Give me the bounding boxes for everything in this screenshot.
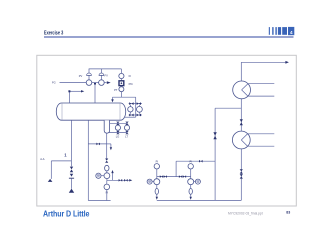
svg-text:4: 4 <box>290 30 293 35</box>
discharge gate valve <box>124 179 128 182</box>
valve above E2 <box>240 119 243 125</box>
arrow overhead <box>285 61 289 64</box>
svg-text:MYC92002-03_final.ppt: MYC92002-03_final.ppt <box>228 212 263 216</box>
wire boot drain <box>106 133 108 158</box>
arrow vent <box>107 81 111 84</box>
slops branch wire <box>51 161 71 179</box>
valve on cross link <box>96 143 100 146</box>
svg-text:Exercise 3: Exercise 3 <box>44 30 64 36</box>
wire <box>120 92 122 98</box>
pump P1 <box>104 173 110 179</box>
wire to grade <box>71 178 73 189</box>
svg-text:FG: FG <box>52 81 56 85</box>
svg-text:A-A: A-A <box>40 157 45 161</box>
wire <box>120 85 122 88</box>
wire <box>156 169 158 179</box>
wire tap header <box>113 96 136 98</box>
fan cooler E2 <box>232 131 250 149</box>
level bridle top rail <box>110 122 128 124</box>
valves below E2 <box>240 169 243 178</box>
wire between valves <box>92 82 99 84</box>
drain stub arrow <box>107 144 112 150</box>
valve on riser header <box>199 160 203 163</box>
svg-text:PI: PI <box>156 159 159 163</box>
drain arrowhead <box>70 174 73 177</box>
motor M1 <box>96 173 104 178</box>
wire vessel outlet column <box>87 120 89 200</box>
svg-text:FV: FV <box>105 74 109 78</box>
PSV bottom valves <box>129 114 141 117</box>
wire pump1 drain <box>106 190 108 201</box>
E1 stubs <box>248 84 274 96</box>
PSV top bar <box>129 103 142 105</box>
wire pumps header <box>157 176 191 178</box>
svg-text:PIC: PIC <box>129 82 133 86</box>
drain bar <box>69 177 74 179</box>
wire bypass top link <box>215 107 241 109</box>
wire bypass riser <box>214 108 216 200</box>
casing P2 <box>155 185 158 195</box>
wire pump discharge <box>107 179 129 181</box>
motor M2 <box>147 179 154 184</box>
wire drain column <box>70 120 72 166</box>
wire <box>190 169 192 179</box>
svg-text:LT: LT <box>125 134 128 138</box>
control valve PV2 <box>99 73 105 85</box>
arrow into vessel <box>111 97 114 102</box>
header valves left <box>160 175 167 178</box>
gauge PI2 <box>154 164 159 169</box>
instrument FI <box>119 73 124 78</box>
drain triangle <box>69 189 74 193</box>
fan cooler E1 <box>233 81 251 99</box>
svg-text:PI: PI <box>189 159 192 163</box>
gauge PI3 <box>188 164 193 169</box>
drain valve <box>70 167 73 173</box>
strainer <box>105 165 109 171</box>
svg-text:PV: PV <box>79 74 83 78</box>
vent riser arrow <box>111 170 113 180</box>
casing P3 <box>189 185 192 195</box>
PSV top valves <box>129 102 141 105</box>
header valves right <box>179 175 186 178</box>
control valve PV1 <box>86 73 92 85</box>
PSV assembly vertical <box>135 97 137 115</box>
wire <box>106 171 108 173</box>
PSV left circle <box>128 107 133 112</box>
diagram frame <box>37 55 297 206</box>
svg-text:LG: LG <box>116 134 119 138</box>
controller PIC <box>119 81 124 86</box>
transmitter LT <box>124 125 129 130</box>
svg-text:83: 83 <box>286 211 290 215</box>
PSV bottom return <box>125 115 136 117</box>
arrow P3 down <box>190 194 192 200</box>
PSV bottom bar <box>129 114 142 116</box>
vessel seam left <box>61 103 63 120</box>
vessel seam right <box>119 103 121 120</box>
wire bottom header <box>157 199 242 201</box>
E2 stubs <box>248 134 275 146</box>
wire riser <box>176 161 215 176</box>
arrow P2 down <box>156 194 158 200</box>
PSV stubs <box>130 105 139 114</box>
discharge arrow <box>129 179 132 181</box>
svg-text:Arthur D Little: Arthur D Little <box>43 209 90 219</box>
discharge check valve <box>119 179 123 182</box>
wire bottom left header <box>88 200 110 202</box>
slops triangle <box>48 179 53 182</box>
motor M3 <box>194 179 201 184</box>
vessel stub arrow <box>68 90 84 103</box>
node tee <box>94 83 96 85</box>
wire overhead outlet <box>241 61 285 63</box>
gauge LG <box>115 125 120 130</box>
bridle valves <box>116 122 129 135</box>
wire tee to vessel <box>94 83 96 103</box>
logo bars <box>269 27 295 35</box>
svg-text:PT: PT <box>114 88 118 92</box>
svg-text:FI: FI <box>129 74 132 78</box>
PSV right circle <box>137 106 143 112</box>
header rule <box>44 36 294 38</box>
wire <box>120 79 122 81</box>
pump P3 <box>188 179 194 185</box>
boot <box>104 120 109 133</box>
valve on bypass riser <box>213 132 216 139</box>
wire vent <box>104 82 106 84</box>
vessel V-1 <box>56 103 125 120</box>
level bridle bottom rail <box>109 132 128 134</box>
pump P2 <box>154 179 160 185</box>
wire feed <box>60 82 87 84</box>
wire cross link <box>88 143 106 145</box>
gauge PI1 <box>104 180 110 189</box>
transmitter PT <box>119 87 124 92</box>
pump P1 suction valve <box>105 159 108 163</box>
wire signal header <box>89 69 122 74</box>
wire condenser column <box>240 62 242 200</box>
